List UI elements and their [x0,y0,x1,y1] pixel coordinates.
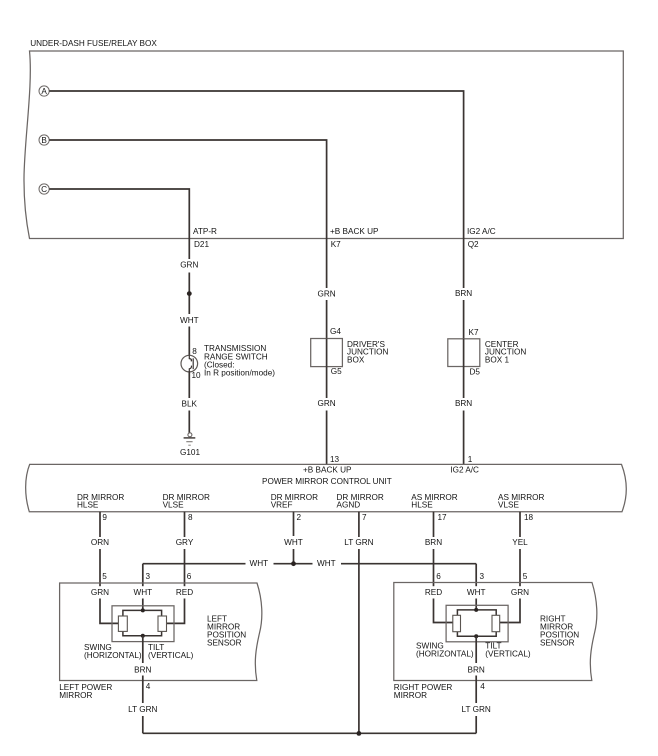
svg-text:4: 4 [146,682,151,691]
wire BRN to junction box K7 [463,300,465,339]
svg-text:VLSE: VLSE [498,500,519,509]
svg-text:9: 9 [102,513,107,522]
svg-text:WHT: WHT [180,316,199,325]
svg-text:(VERTICAL): (VERTICAL) [148,651,194,660]
svg-text:BRN: BRN [468,666,485,675]
label CENTER JUNCTION BOX 1 [485,340,526,365]
wire GRN to control unit pin 13 [326,411,328,465]
terminal A [39,86,49,96]
wire bus right end down to right sensor [475,564,477,587]
right sensor internal bus [457,610,496,636]
junction dot sensor bottom (BRN) [141,634,145,638]
svg-text:GRN: GRN [91,588,109,597]
wire junction box to BRN [463,367,465,399]
junction dot WHT bus [291,561,296,566]
wire GRN into right sensor wiper [500,599,520,623]
svg-text:SENSOR: SENSOR [207,639,242,648]
right mirror position sensor outline [446,605,508,642]
svg-text:RED: RED [425,588,442,597]
wire WHT bus right segment [341,563,476,565]
wire LT GRN to bottom bus [142,716,144,733]
left sensor internal bus [123,610,162,635]
wire pin 17 BRN upper [433,512,435,537]
svg-text:(VERTICAL): (VERTICAL) [485,650,531,659]
label LEFT POWER MIRROR [59,683,112,700]
svg-text:7: 7 [362,513,367,522]
wire ATP-R upper segment [188,239,190,260]
svg-text:POWER MIRROR CONTROL UNIT: POWER MIRROR CONTROL UNIT [262,477,392,486]
label TILT (VERTICAL) right [485,641,531,658]
wire from terminal C to ATP-R drop [49,189,189,239]
wire pin 8 GRY upper [184,512,186,537]
svg-text:ATP-R: ATP-R [193,227,217,236]
label TILT (VERTICAL) [148,643,194,660]
svg-text:BOX 1: BOX 1 [485,356,510,365]
svg-text:BRN: BRN [455,289,472,298]
wire through driver's junction box [326,339,328,367]
svg-text:LT GRN: LT GRN [128,705,157,714]
wire WHT segment to switch [188,327,190,356]
svg-text:GRN: GRN [180,260,198,269]
under-dash fuse/relay box outline [24,51,623,239]
svg-text:RED: RED [176,588,193,597]
junction dot sensor top (WHT) [141,608,145,612]
label LEFT MIRROR POSITION SENSOR [207,615,246,648]
svg-text:+B BACK UP: +B BACK UP [330,227,379,236]
svg-text:HLSE: HLSE [411,500,433,509]
wire pin 9 ORN upper [99,512,101,537]
svg-text:3: 3 [480,572,485,581]
svg-text:WHT: WHT [250,559,269,568]
svg-text:GRY: GRY [176,538,194,547]
wire junction box to GRN [326,367,328,398]
svg-text:GRN: GRN [317,399,335,408]
wire IG2 A/C upper segment [463,239,465,289]
wire WHT into sensor top [142,599,144,611]
tilt potentiometer (left sensor) [158,616,167,631]
wire BRN from right sensor bottom [475,636,477,663]
svg-text:2: 2 [297,513,302,522]
junction dot bottom bus [357,731,362,736]
right power mirror box [394,583,597,681]
svg-text:LT GRN: LT GRN [344,538,373,547]
svg-text:G5: G5 [331,367,342,376]
svg-text:WHT: WHT [133,588,152,597]
svg-text:5: 5 [102,572,107,581]
driver's junction box [311,339,343,367]
terminal C [39,184,49,194]
svg-text:Q2: Q2 [468,240,479,249]
svg-text:UNDER-DASH FUSE/RELAY BOX: UNDER-DASH FUSE/RELAY BOX [30,39,157,48]
label TRANSMISSION RANGE SWITCH [204,344,275,377]
wire WHT bus to junction [274,563,313,565]
wire switch to BLK [188,371,190,398]
wire GRN into sensor wiper [100,599,119,624]
wire BLK to ground [188,411,190,434]
left power mirror box [60,583,262,681]
wire from terminal B to +B BACK UP drop [49,140,326,239]
wire WHT into right sensor top [475,599,477,610]
svg-text:WHT: WHT [317,559,336,568]
wire bus left end down to left sensor [142,564,144,587]
svg-text:3: 3 [146,572,151,581]
label DRIVER'S JUNCTION BOX [347,340,388,365]
svg-text:18: 18 [524,513,534,522]
svg-text:VREF: VREF [271,500,293,509]
tilt potentiometer (right sensor) [492,615,500,631]
svg-text:WHT: WHT [284,538,303,547]
svg-text:K7: K7 [469,328,479,337]
svg-text:ORN: ORN [91,538,109,547]
wire WHT bus left segment [143,563,246,565]
svg-text:C: C [41,185,47,194]
power mirror control unit box [26,464,627,512]
svg-text:D21: D21 [194,240,209,249]
label RIGHT POWER MIRROR [394,683,453,700]
wire from terminal A to IG2 A/C drop [49,91,463,239]
svg-text:WHT: WHT [467,588,486,597]
svg-text:VLSE: VLSE [163,500,184,509]
wire pin 2 WHT upper [293,512,295,536]
svg-text:LT GRN: LT GRN [462,705,491,714]
svg-text:+B BACK UP: +B BACK UP [303,465,352,474]
svg-text:SENSOR: SENSOR [540,639,575,648]
wire BRN to right mirror pin 6 [433,549,435,586]
junction dot right sensor bottom (BRN) [474,634,478,638]
svg-text:6: 6 [436,572,441,581]
svg-text:BOX: BOX [347,356,365,365]
svg-text:8: 8 [188,513,193,522]
wire ATP-R segment to splice [188,273,190,315]
svg-text:AGND: AGND [337,500,361,509]
svg-text:1: 1 [468,455,473,464]
svg-text:IG2 A/C: IG2 A/C [467,227,496,236]
center junction box 1 [448,339,480,367]
svg-text:13: 13 [330,455,340,464]
wire pin 7 LT GRN upper [358,512,360,537]
svg-text:YEL: YEL [512,538,528,547]
label SWING (HORIZONTAL) right [416,641,474,658]
wire BRN to pin 4 [142,676,144,704]
wire through center junction box [463,339,465,367]
svg-text:MIRROR: MIRROR [59,691,92,700]
svg-text:5: 5 [523,572,528,581]
wire BRN to right pin 4 [475,676,477,704]
svg-text:8: 8 [192,347,197,356]
wire GRY to left mirror pin 6 [184,549,186,586]
svg-text:4: 4 [480,682,485,691]
svg-text:GRN: GRN [317,289,335,298]
wire right LT GRN to bottom bus [475,716,477,733]
wire RED into right sensor wiper [434,599,453,623]
svg-text:BRN: BRN [455,399,472,408]
svg-text:IG2 A/C: IG2 A/C [450,466,479,475]
wire bottom ground bus [143,732,476,734]
wire +B BACK UP upper segment [326,239,328,289]
svg-text:BRN: BRN [134,666,151,675]
wire RED into sensor wiper [167,599,185,624]
svg-text:B: B [41,136,47,145]
svg-text:(HORIZONTAL): (HORIZONTAL) [416,650,474,659]
wire WHT to bus junction [293,549,295,564]
svg-text:D5: D5 [470,367,481,376]
svg-text:In R position/mode): In R position/mode) [204,369,275,378]
svg-text:17: 17 [438,513,448,522]
wire GRN to junction box G4 [326,300,328,339]
svg-text:BRN: BRN [425,538,442,547]
svg-text:K7: K7 [331,240,341,249]
label RIGHT MIRROR POSITION SENSOR [540,615,579,648]
svg-text:A: A [41,87,47,96]
svg-text:6: 6 [187,572,192,581]
svg-text:G101: G101 [180,448,200,457]
left mirror position sensor outline [112,606,174,642]
wire BRN from sensor bottom [142,636,144,663]
svg-text:BLK: BLK [182,399,198,408]
wire YEL to right mirror pin 5 [519,549,521,586]
svg-text:GRN: GRN [511,588,529,597]
ground symbol G101 [184,433,196,445]
svg-text:10: 10 [192,371,202,380]
wire ORN to left mirror pin 5 [99,549,101,586]
junction dot right sensor top (WHT) [474,608,478,612]
wire BRN to control unit pin 1 [463,411,465,465]
splice junction dot [187,291,192,296]
svg-text:(HORIZONTAL): (HORIZONTAL) [84,651,142,660]
svg-text:MIRROR: MIRROR [394,691,427,700]
svg-text:G4: G4 [330,327,341,336]
wire LT GRN down to bottom bus [358,549,360,733]
swing potentiometer (right sensor) [453,615,461,631]
swing potentiometer (left sensor) [118,616,127,631]
svg-text:HLSE: HLSE [77,500,99,509]
label SWING (HORIZONTAL) [84,643,142,660]
terminal B [39,135,49,145]
transmission range switch [181,355,198,372]
wire pin 18 YEL upper [519,512,521,537]
